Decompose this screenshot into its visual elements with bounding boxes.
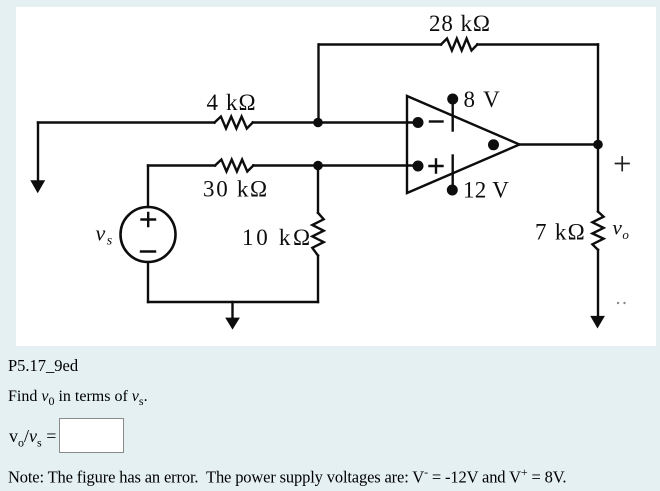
text line: find — [8, 388, 148, 409]
svg-text:30 kΩ: 30 kΩ — [203, 177, 269, 202]
wire right vertical bottom — [597, 250, 599, 316]
node op-amp inverting pin — [413, 117, 424, 128]
node op-amp non-inverting pin — [413, 161, 424, 172]
svg-text:12 V: 12 V — [463, 178, 509, 203]
wire 10k top — [317, 166, 319, 213]
decorative dots — [617, 302, 626, 304]
wire op-amp output — [520, 143, 599, 145]
wire bottom rail — [148, 301, 318, 303]
wire inverting row left — [38, 121, 215, 123]
wire 10k bottom — [317, 256, 319, 302]
wire right vertical top — [597, 45, 599, 212]
ground right arrowhead — [590, 316, 605, 329]
ground middle arrowhead — [225, 318, 240, 330]
wire inverting row right — [253, 121, 418, 123]
svg-text:vs: vs — [96, 221, 113, 249]
node 8V pin — [447, 94, 458, 105]
text line: ratio label — [9, 426, 56, 451]
wire 12V rail — [452, 156, 454, 190]
resistor 4 kΩ — [215, 117, 253, 129]
svg-text:4 kΩ: 4 kΩ — [207, 90, 257, 115]
resistor 30 kΩ — [215, 160, 253, 172]
wire non-inverting row right — [253, 164, 418, 166]
node output plus polarity — [616, 157, 630, 171]
node non-inverting input junction — [313, 161, 323, 171]
op-amp plus sign — [430, 160, 443, 173]
node op-amp output pin — [488, 139, 499, 150]
wire source top — [147, 166, 149, 208]
wire 8V rail — [452, 99, 454, 131]
ground left arrowhead — [30, 180, 45, 193]
voltage source plus sign — [142, 213, 156, 226]
wire top feedback right segment — [477, 43, 598, 45]
op-amp minus sign — [430, 120, 443, 122]
wire feedback left vertical — [317, 45, 319, 123]
resistor 10 kΩ — [312, 213, 323, 256]
text line: note — [8, 465, 566, 488]
svg-text:8 V: 8 V — [464, 87, 502, 112]
svg-text:vo: vo — [613, 216, 630, 243]
resistor 28 kΩ — [441, 39, 477, 51]
svg-text:28 kΩ: 28 kΩ — [429, 11, 491, 36]
voltage source minus sign — [141, 250, 155, 252]
svg-text:10 kΩ: 10 kΩ — [242, 225, 313, 250]
wire middle ground stem — [231, 302, 233, 318]
wire left ground drop — [37, 123, 39, 182]
text line: problem id — [8, 356, 78, 376]
wire top feedback left segment — [319, 43, 441, 45]
wire non-inverting row left — [148, 164, 215, 166]
resistor 7 kΩ — [592, 212, 603, 250]
node output junction — [593, 140, 603, 150]
op-amp U1 triangle — [407, 96, 520, 193]
svg-text:7 kΩ: 7 kΩ — [535, 220, 586, 245]
answer input box — [59, 418, 124, 453]
node inverting input junction — [313, 118, 323, 128]
wire source bottom — [147, 262, 149, 302]
voltage source vs circle — [121, 207, 176, 262]
node 12V pin — [447, 185, 458, 196]
